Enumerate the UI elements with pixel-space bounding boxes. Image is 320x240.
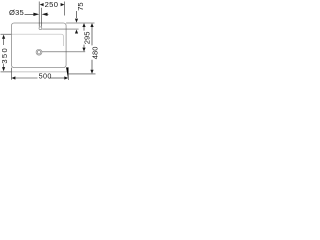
- extension line: 480 bottom ref: [68, 73, 95, 75]
- extension line: 250 right: [64, 2, 66, 16]
- svg-text:350: 350: [0, 47, 9, 64]
- svg-text:250: 250: [45, 0, 59, 9]
- dimension 480 down arrow: [90, 70, 93, 74]
- front skirt line: [11, 71, 68, 73]
- dimension 350 line lower stub: [3, 64, 5, 68]
- svg-text:500: 500: [39, 72, 52, 81]
- extension line: hole centre to right: [42, 28, 78, 30]
- dimension 350 up arrow: [2, 35, 5, 39]
- dimension 500 left arrow: [11, 76, 15, 79]
- dimension Ø35 leader + right-pointing arrow: [25, 13, 34, 15]
- extension line: hole left edge: [38, 2, 40, 27]
- dimension 500 line left: [15, 77, 38, 79]
- drain outer circle: [36, 49, 42, 55]
- svg-text:480: 480: [90, 47, 99, 60]
- svg-text:75: 75: [76, 2, 85, 10]
- washbasin outer outline: [11, 23, 66, 68]
- inner bowl line: [12, 34, 64, 46]
- dimension 250 right arrow: [61, 3, 65, 6]
- dimension 295 up arrow: [82, 23, 85, 27]
- extension line: basin left down (500 left ref): [10, 68, 12, 80]
- dimension Ø35 left-pointing arrow with tail: [42, 13, 48, 16]
- dimension 295 line: [83, 26, 85, 31]
- dimension 250 left arrow: [40, 3, 44, 6]
- extension line: 350 top ref (inner line extended left): [1, 33, 12, 35]
- extension line: top edge right: [66, 22, 94, 24]
- extension line: bottom edge to right + drop: [66, 68, 68, 80]
- drain inner circle: [37, 51, 40, 54]
- dimension 480 up arrow: [90, 23, 93, 27]
- dimension 500 right arrow: [64, 76, 68, 79]
- svg-text:295: 295: [83, 32, 92, 45]
- extension line: hole right edge: [41, 8, 43, 27]
- dimension 295 down arrow: [82, 48, 85, 52]
- extension line: 350 bottom left: [1, 71, 12, 73]
- dimension 500 line right: [50, 77, 65, 79]
- tap hole: [39, 27, 42, 30]
- extension line: drain centre to right: [42, 51, 85, 53]
- svg-text:Ø35: Ø35: [9, 8, 24, 17]
- dimension 350 line upper stub: [3, 39, 5, 46]
- dimension 350 down arrow: [2, 67, 5, 71]
- dimension 75 line + down arrow: [76, 11, 78, 18]
- dimension 480 line: [91, 26, 93, 45]
- dimension 75 up arrow below hole line: [75, 30, 78, 34]
